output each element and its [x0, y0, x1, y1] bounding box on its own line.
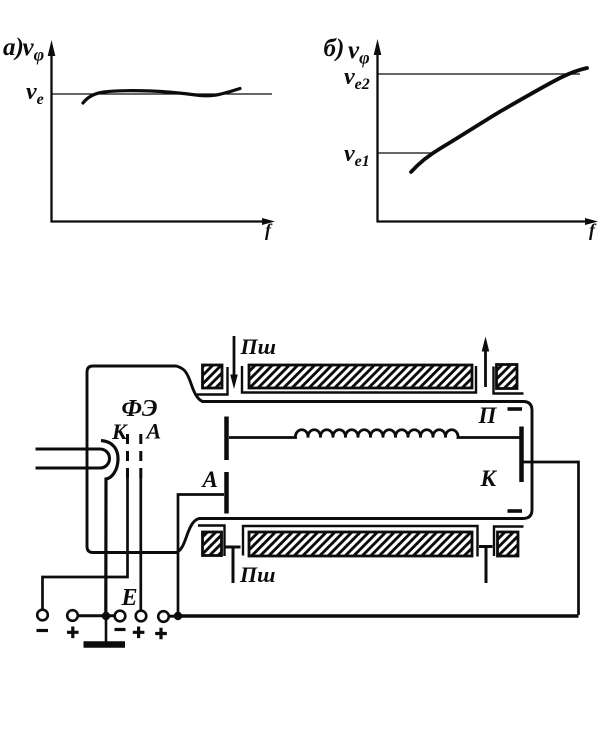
- bottom-left magnet block: [203, 532, 222, 556]
- svg-text:А: А: [145, 419, 162, 444]
- graph b: v_e1 reference line: [378, 152, 436, 154]
- battery terminal 1 (-): [37, 610, 48, 621]
- wire from anode to node B: [178, 495, 224, 613]
- output arrow: [482, 337, 490, 388]
- battery terminal 4 (+): [136, 611, 147, 622]
- minus sign 3: [115, 628, 126, 631]
- battery terminal 3 (-): [115, 611, 126, 622]
- bottom middle shield bracket: [243, 526, 478, 557]
- svg-text:К: К: [480, 466, 498, 491]
- plus sign 5: [155, 628, 167, 640]
- wire terminal2 to terminal3 through node C: [78, 614, 116, 617]
- graph a: x-axis: [51, 218, 276, 225]
- svg-text:а): а): [3, 34, 24, 61]
- wire terminal 5 to node B: [169, 615, 179, 618]
- collector plate K: [519, 427, 524, 483]
- grid A dashed electrode: [139, 434, 142, 479]
- noise input pin (bottom): [226, 547, 241, 583]
- plus sign 4: [133, 627, 145, 639]
- bottom-left shield bracket: [198, 526, 225, 557]
- heater leads: [36, 449, 110, 468]
- grid K dashed electrode: [126, 434, 129, 479]
- plus sign 2: [67, 627, 79, 639]
- graph b: v_e2 reference line: [378, 73, 581, 75]
- battery terminal 5 (+): [158, 611, 169, 622]
- bottom output pin: [479, 547, 493, 584]
- svg-text:Е: Е: [121, 585, 138, 611]
- svg-text:Пш: Пш: [240, 334, 276, 359]
- bottom-right shield bracket: [494, 527, 524, 557]
- cathode arc: [101, 441, 118, 613]
- ground stem: [105, 616, 108, 644]
- top long magnet block: [249, 365, 472, 388]
- graph b: phase velocity curve: [411, 68, 587, 172]
- helix left termination plate: [224, 417, 229, 461]
- graph a: phase velocity curve: [83, 89, 240, 104]
- top-left magnet block: [203, 365, 223, 388]
- bottom bus wire: [178, 614, 579, 617]
- minus sign 1: [37, 629, 49, 632]
- graph b: x-axis: [377, 218, 599, 225]
- svg-text:К: К: [111, 419, 128, 444]
- graph a: v_e reference line: [52, 93, 273, 95]
- top-left shield bracket: [197, 367, 228, 395]
- battery terminal 2 (+): [67, 610, 78, 621]
- ground: [84, 641, 126, 648]
- getter mark top: [508, 407, 523, 411]
- svg-text:П: П: [478, 403, 498, 428]
- node B (anode junction dot): [174, 612, 182, 620]
- graph a: y-axis: [48, 40, 56, 222]
- graph b: y-axis: [374, 39, 382, 222]
- wire from grid A to battery terminal 4: [139, 478, 142, 610]
- node C (cathode junction dot): [102, 612, 110, 620]
- wire from grid K to battery terminal 1: [43, 478, 128, 609]
- svg-text:Пш: Пш: [239, 562, 275, 587]
- anode plate A: [224, 472, 229, 514]
- bottom long magnet block: [249, 532, 472, 556]
- top-right magnet block: [497, 365, 518, 389]
- bottom-right magnet block: [498, 532, 519, 556]
- wire from collector to bottom bus: [524, 462, 579, 615]
- helix П: [229, 430, 520, 438]
- svg-text:А: А: [201, 467, 218, 492]
- getter mark bottom: [508, 509, 523, 513]
- top middle shield bracket: [242, 366, 476, 393]
- svg-text:б): б): [324, 35, 345, 62]
- noise input arrow: [230, 336, 238, 389]
- tube envelope: [87, 366, 532, 553]
- top-right shield bracket: [494, 367, 524, 394]
